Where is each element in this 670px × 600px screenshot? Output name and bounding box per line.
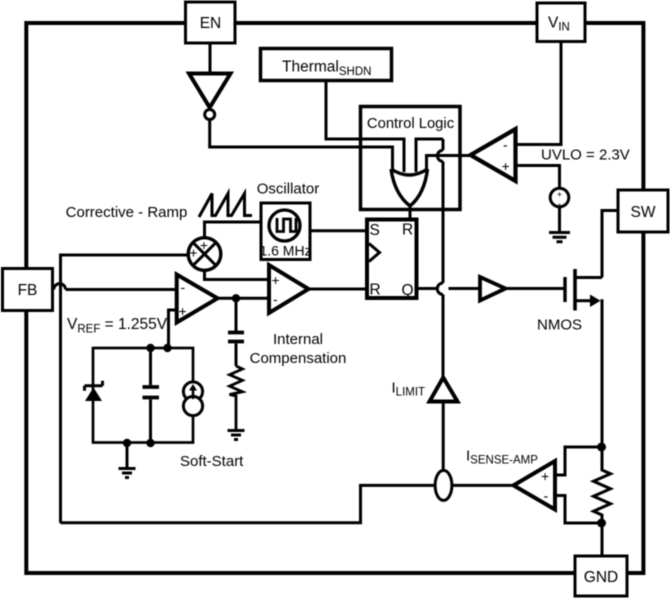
inverter U2 [189,74,231,120]
control logic box U3 [361,107,461,210]
Thermal SHDN box [261,49,392,81]
wire ISENSE plus input to top of sense resistor [555,447,602,475]
ground (compensation) [228,431,245,440]
svg-text:R: R [402,222,413,239]
svg-text:+: + [541,468,549,484]
svg-text:Control Logic: Control Logic [367,116,455,132]
svg-text:R: R [370,282,381,299]
wire error amp output to PWM comparator minus input [217,297,269,300]
soft-start current source I1 [183,382,202,416]
wire OR output to latch R top input [409,204,412,220]
svg-text:Corrective - Ramp: Corrective - Ramp [66,204,188,221]
wire VIN pin to UVLO minus input [516,42,562,145]
svg-text:Oscillator: Oscillator [257,181,320,198]
svg-text:+: + [502,158,510,174]
error amplifier U5 [177,275,218,323]
node: soft-start bottom cap junction [146,439,154,447]
svg-text:1.6 MHz: 1.6 MHz [259,243,311,259]
svg-text:+: + [557,190,562,200]
wire ISENSE-AMP output to corrective ramp path [61,485,514,522]
wire oscillator to latch S input [310,229,367,232]
wire NMOS drain to SW [602,211,618,278]
svg-text:FB: FB [18,282,38,299]
FB pin box [3,269,53,311]
ground (UVLO reference) [549,233,570,242]
sawtooth ramp waveform [199,194,252,218]
compensation capacitor C2 [228,298,244,366]
svg-text:+: + [272,272,280,288]
node: compensation junction [232,294,240,302]
PWM comparator U6 [269,265,309,313]
svg-text:NMOS: NMOS [537,317,582,334]
node: soft-start bottom gnd junction [123,439,131,447]
wire UVLO comparator output to OR input 4 [427,156,471,173]
wire NMOS source down to sense node [601,301,603,447]
svg-text:+: + [200,238,208,253]
wire PWM comparator output to latch R input [308,288,367,291]
wire oscillator ramp to multiplier [205,222,261,238]
Oscillator box [259,203,311,260]
wire FB to error amp minus input (with hop over feedback line) [53,288,178,291]
OR gate inside control logic [391,169,428,206]
UVLO comparator U4 [471,129,516,181]
svg-text:Compensation: Compensation [250,350,347,367]
svg-text:-: - [181,279,186,295]
svg-text:-: - [273,291,278,307]
svg-text:SW: SW [631,204,656,221]
node: soft-start top cap junction [146,344,154,352]
wire ILIMIT feedback vertical to OR input 3 (with hops) [416,139,443,172]
svg-text:Soft-Start: Soft-Start [180,453,244,470]
zener diode D1 [85,381,103,401]
SR latch U7 [367,220,417,300]
wire error amp plus input from VREF [169,310,178,348]
wire multiplier output to PWM comparator plus input [205,270,270,279]
wire soft-start to ground [126,443,129,469]
svg-text:S: S [370,222,380,239]
svg-text:ISENSE-AMP: ISENSE-AMP [466,448,538,467]
wire ISENSE minus input to bottom of sense resistor [555,496,602,524]
wire sense feedback: up left side to multiplier left input [61,255,189,523]
wire buffer to NMOS gate [505,287,564,290]
svg-text:ILIMIT: ILIMIT [392,380,426,399]
svg-text:-: - [503,137,508,153]
node: sense resistor top [597,443,606,452]
node: soft-start top vref junction [163,344,171,352]
wire source to ground [558,207,561,233]
svg-text:UVLO = 2.3V: UVLO = 2.3V [541,147,630,164]
EN pin box [186,2,236,43]
ILIMIT comparator triangle [430,378,458,402]
ISENSE amplifier U9 [514,461,556,510]
wire ILIMIT triangle to sense ellipse [442,402,445,471]
svg-text:VREF = 1.255V: VREF = 1.255V [67,316,168,336]
GND pin box [575,556,627,596]
sense resistor R1 [594,447,611,523]
voltage source 2.3V reference [550,188,569,209]
wire sense bottom to GND pin [601,523,604,556]
sense tap ellipse [435,470,452,500]
compensation resistor R2 [230,366,243,430]
node: sense resistor bottom [597,519,606,528]
svg-text:+: + [190,246,198,261]
svg-text:EN: EN [200,15,222,32]
svg-text:Internal: Internal [273,331,323,348]
wire EN pin to inverter [209,43,212,73]
wire inverter output to OR input 1 (EN) [210,120,393,173]
wire latch Q output to buffer (with hop) [417,287,481,290]
soft-start capacitor C1 [143,348,160,443]
wire Thermal pin to OR input 2 [326,80,404,172]
buffer U8 [480,277,506,301]
svg-text:Q: Q [402,282,414,299]
NMOS Q1 [565,269,602,311]
soft-start cell box [93,348,193,443]
SW pin box [618,190,668,232]
ground (soft-start) [119,469,136,478]
svg-text:-: - [544,488,549,504]
svg-text:+: + [179,303,187,319]
svg-text:GND: GND [584,569,618,586]
VIN pin box [537,3,585,42]
multiplier (ramp summer) [188,238,221,271]
wire UVLO plus input to reference source [516,166,560,190]
